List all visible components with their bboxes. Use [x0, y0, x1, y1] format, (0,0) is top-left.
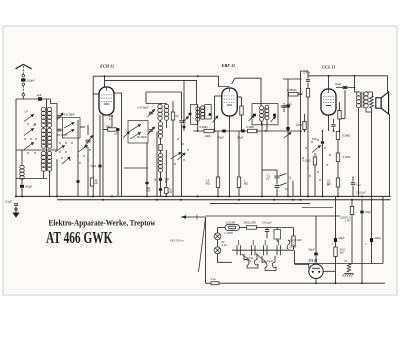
capacitor 100pF antenna	[21, 78, 25, 81]
ground	[12, 213, 19, 218]
wire res to x300	[298, 93, 302, 95]
wire mid horizontal	[16, 149, 57, 151]
wire osc coil top	[146, 104, 161, 105]
IF1 secondary coil	[201, 106, 205, 120]
UY11 electrodes	[312, 268, 321, 273]
switch osc b	[130, 133, 141, 140]
coil L2 secondary	[47, 128, 52, 148]
node antenna coupling	[22, 75, 25, 78]
wire IF2 sec down	[266, 120, 268, 132]
coil osc feedback upper	[158, 122, 162, 139]
wire x218 down	[217, 131, 219, 177]
capacitor IF1 primary	[189, 113, 192, 116]
svg-text:U 250V: U 250V	[225, 231, 234, 235]
wire power top	[206, 215, 341, 217]
wire x315 to bus	[314, 165, 316, 196]
wire x362 segs	[361, 200, 363, 211]
wire y207 segment	[302, 207, 333, 209]
coil L4 wave trap	[20, 165, 24, 179]
wire x304 segs	[304, 114, 306, 122]
wire speaker bottom link	[388, 113, 391, 115]
switch osc a	[130, 125, 141, 132]
mains tick	[196, 215, 198, 220]
switch row 2 right	[78, 146, 88, 153]
resistor 0.1M smoothing	[336, 178, 339, 187]
resistor 0.1M ucl b	[336, 153, 339, 162]
svg-text:Elektro-Apparate-Werke, Trepto: Elektro-Apparate-Werke, Treptow	[49, 218, 156, 227]
wire corner to switch box	[51, 99, 58, 104]
capacitor tone upper	[275, 176, 280, 178]
resistor 150/75 field	[350, 207, 353, 215]
wire antenna to bus	[22, 86, 24, 94]
wire lower horizontal	[16, 178, 47, 180]
wire detector segment	[283, 78, 302, 80]
wire x352 segs	[351, 200, 353, 207]
wire heater bus	[57, 199, 391, 201]
wire x345 drop	[344, 90, 346, 119]
wire rail x57	[56, 104, 58, 151]
svg-text:UCL11: UCL11	[290, 247, 298, 249]
IF2 trimmer arrow 2	[271, 117, 276, 123]
wire x277 top	[276, 170, 278, 176]
trimmer osc 4.5-30pF	[149, 112, 153, 114]
wire trap top	[21, 150, 23, 166]
svg-text:30µF: 30µF	[237, 136, 244, 140]
wire x160 to bus	[160, 172, 162, 196]
svg-text:kΩ: kΩ	[169, 191, 172, 194]
IF2 primary coil	[260, 106, 264, 122]
wire bottom link y263	[295, 263, 384, 265]
svg-text:(1kΩ): (1kΩ)	[205, 134, 212, 138]
wire left rail	[15, 99, 17, 196]
svg-text:µF: µF	[115, 133, 118, 136]
resistor 0.1M	[248, 129, 258, 132]
wire x333 segs	[333, 119, 335, 124]
capacitor mains 1	[265, 230, 269, 232]
wire IF1 down	[197, 121, 199, 131]
svg-text:40µF: 40µF	[375, 236, 382, 240]
svg-text:2 W: 2 W	[345, 218, 350, 222]
svg-text:20kΩ: 20kΩ	[106, 126, 112, 129]
svg-text:0,2MΩ: 0,2MΩ	[342, 134, 350, 138]
svg-text:EBF11: EBF11	[290, 241, 298, 243]
capacitor mains 2 box	[274, 230, 281, 240]
band switch box	[63, 118, 81, 139]
heater bars	[237, 245, 281, 255]
wire rail x147	[146, 143, 148, 196]
svg-text:0,1MΩ: 0,1MΩ	[246, 125, 254, 129]
svg-text:0,1MΩ: 0,1MΩ	[303, 159, 311, 163]
trimmer arrow	[57, 113, 64, 121]
capacitor 50uF cathode blob	[117, 128, 120, 131]
wire UCL11 top	[328, 76, 330, 89]
switch S2b in box	[64, 130, 74, 136]
resistor 1M ucl grid	[303, 122, 306, 130]
switch row 2 left	[55, 146, 65, 153]
wire x315 top	[314, 153, 316, 157]
wire x277 down	[276, 189, 278, 197]
junction dots bottom wire	[315, 282, 363, 284]
svg-text:MΩ: MΩ	[206, 182, 210, 186]
wire x284 segs	[283, 103, 285, 105]
wire top bus right segment	[308, 75, 388, 77]
trimmer 4.5-30pF	[57, 116, 61, 118]
svg-text:40µF: 40µF	[335, 82, 342, 86]
heater block UCL11	[262, 256, 276, 271]
coil L3 secondary	[47, 151, 52, 171]
svg-text:C4: C4	[25, 110, 29, 114]
dial lamp 1	[214, 233, 221, 240]
wire x339 segs	[339, 102, 341, 111]
capacitor IF2 secondary	[273, 114, 276, 117]
wire res20k left	[103, 129, 108, 131]
wire x354 transformer	[354, 76, 356, 92]
wire ECH plate line	[105, 80, 197, 104]
node below cap	[22, 83, 25, 86]
coil L3 primary	[41, 151, 46, 171]
wire coil top feed	[46, 99, 48, 108]
svg-text:4,5-30pF: 4,5-30pF	[138, 106, 149, 110]
wire x335 segs	[335, 196, 337, 238]
svg-text:kΩ: kΩ	[95, 182, 98, 185]
svg-text:M013/III w: M013/III w	[170, 239, 185, 243]
svg-text:50µF: 50µF	[365, 210, 371, 214]
resistor 100 osc	[159, 145, 162, 151]
hum coil	[370, 96, 374, 108]
wire mid link y168	[124, 167, 148, 169]
svg-text:4,5-30pF: 4,5-30pF	[64, 113, 75, 117]
wire x241 segs	[241, 97, 243, 106]
wire third bus	[210, 202, 310, 204]
wire ECH11 grid left	[93, 93, 99, 95]
svg-text:50µF: 50µF	[91, 165, 97, 168]
wire box to rail	[80, 126, 85, 128]
oscillator switch box	[128, 121, 148, 144]
chassis zigzag	[347, 264, 351, 273]
wire EBF11 right pin	[237, 96, 241, 98]
wire fuse left	[218, 227, 226, 229]
resistor mains dropper	[247, 226, 257, 229]
junction dots on bus	[15, 195, 363, 197]
wire ECH11 bottom pin	[102, 115, 104, 196]
svg-text:5W: 5W	[340, 250, 344, 254]
svg-text:Ca: Ca	[288, 176, 292, 180]
svg-text:50µF: 50µF	[218, 136, 225, 140]
wire osc coil top 2	[160, 104, 167, 105]
heater switch diagonal 1	[242, 254, 252, 262]
output transformer secondary	[364, 92, 368, 108]
resistor 45k left rail	[90, 178, 93, 186]
resistor 0.2M	[204, 129, 214, 132]
wire x353 stub	[352, 177, 354, 182]
wire grid tap	[87, 125, 89, 135]
IF transformer 2 can	[252, 104, 278, 125]
wire trap to bus	[21, 188, 23, 196]
svg-text:µF: µF	[267, 176, 270, 180]
wire IF1 feed	[197, 105, 199, 108]
svg-text:100pF: 100pF	[27, 78, 35, 82]
svg-text:UCL11: UCL11	[266, 260, 274, 263]
switch S2a in box	[64, 123, 74, 129]
wire input horizontal	[16, 98, 51, 100]
coil L2 primary	[41, 128, 46, 148]
capacitor 15 pad	[159, 178, 162, 181]
wire rail x78	[77, 120, 79, 196]
resistor 1M	[237, 177, 240, 188]
IF1 core	[199, 107, 201, 120]
oscillator coil B	[164, 104, 168, 120]
wire EBF11 left pin	[215, 95, 222, 97]
trimmer padder	[149, 130, 153, 132]
heater switch diagonal 2	[256, 254, 266, 262]
wire cathode to bus	[111, 115, 113, 127]
wire x335 low	[335, 257, 337, 284]
capacitor 0.1uF psu stub	[351, 183, 355, 185]
IF1 trimmer arrow left	[183, 117, 189, 123]
wire power left rail	[205, 217, 207, 283]
wire osc coil bottoms	[159, 120, 162, 122]
capacitor tone lower	[275, 186, 280, 188]
resistor heater dropper	[292, 236, 295, 246]
svg-text:ECH 11: ECH 11	[99, 64, 114, 69]
wire UCL11 anode right	[336, 87, 355, 89]
svg-text:30µF: 30µF	[280, 104, 287, 108]
IF2 trimmer arrow 1	[249, 116, 255, 122]
wire x239 down	[238, 131, 240, 177]
wire x184 rail	[183, 80, 185, 131]
padder arrow	[148, 127, 155, 135]
svg-text:2×0,1µF: 2×0,1µF	[356, 191, 366, 195]
IF1 former right	[205, 105, 211, 120]
wire rect feed	[315, 216, 317, 252]
capacitor x147 blob	[145, 182, 148, 184]
coil core line	[46, 108, 48, 172]
wire speaker feed	[387, 76, 389, 92]
wire coil bottom	[43, 171, 45, 179]
wire osc grid drop	[145, 92, 147, 104]
wire rail x157	[156, 132, 158, 197]
wire fuse right	[240, 227, 247, 229]
capacitor IF1 secondary	[209, 113, 212, 116]
oscillator coil A	[158, 104, 162, 120]
wire x308 top	[307, 71, 309, 79]
capacitor 40uF b	[370, 238, 373, 242]
capacitor coupling 0.04uF	[306, 80, 310, 82]
wire cap mains segs	[266, 228, 268, 230]
tone hook lower	[280, 183, 287, 186]
wire rect bottom	[315, 279, 317, 284]
wire x338 low	[337, 140, 339, 154]
switch arrow mid	[178, 153, 186, 160]
contact dots row1	[24, 123, 90, 163]
wire IF2 prim down	[261, 121, 263, 125]
wire coil to bus mid	[49, 171, 51, 196]
wire x100 rail	[99, 115, 101, 196]
capacitor 0.1uF ground	[14, 204, 18, 206]
wire lamp link	[217, 240, 219, 247]
mains switch diagonal	[199, 218, 206, 272]
wire right rail	[389, 114, 391, 196]
switch S1a	[24, 115, 34, 122]
wire antenna drop	[22, 96, 24, 99]
trimmer 15-45pF	[57, 129, 61, 131]
capacitor 30uF screen	[241, 130, 244, 133]
capacitor 40uF anode	[343, 87, 348, 89]
wire lamp down	[218, 254, 233, 263]
wire UCL11 bottom	[328, 115, 330, 131]
capacitor 50uF rect	[314, 253, 318, 256]
tube EBF11	[222, 88, 238, 116]
svg-text:UY11: UY11	[248, 257, 254, 260]
wire chassis bus	[15, 195, 391, 197]
wire rail x181	[181, 92, 183, 120]
wire x277 mid	[276, 179, 278, 185]
wire EBF grid drop	[219, 76, 230, 86]
svg-text:1µF: 1µF	[37, 93, 42, 97]
heater top stubs	[239, 240, 279, 245]
wire top bus left segment	[93, 75, 218, 77]
IF2 secondary coil	[265, 105, 269, 120]
resistor 30ohm	[334, 247, 337, 257]
svg-text:100: 100	[146, 190, 151, 193]
switch tone arrow	[312, 146, 321, 153]
contact dots tone switch	[302, 139, 330, 185]
capacitor 430 pad	[159, 188, 162, 191]
wire x338 mid2	[337, 162, 339, 179]
resistor 0.1M ucl a	[338, 111, 341, 120]
resistor 75k	[165, 188, 168, 194]
wire heater to rect	[294, 250, 296, 264]
wire x322 segs	[322, 131, 324, 141]
dial lamp 2	[214, 247, 221, 254]
resistor 0.1M tone	[313, 157, 316, 165]
svg-text:AT 466 GWK: AT 466 GWK	[46, 228, 113, 247]
capacitor 150pF det	[282, 106, 286, 108]
wire rect to tube	[315, 256, 317, 264]
svg-text:0,1A: 0,1A	[211, 278, 216, 281]
wire primary top	[355, 91, 359, 93]
svg-text:0,1µ: 0,1µ	[356, 183, 361, 186]
wire rail x288	[287, 79, 289, 196]
resistor 1.5M	[216, 177, 219, 188]
resistor 0.35M	[289, 93, 299, 96]
scanned page area	[3, 26, 397, 295]
wire to ground	[15, 207, 17, 213]
svg-text:0,04µ: 0,04µ	[304, 71, 311, 75]
wire secondary bottom	[366, 108, 372, 113]
capacitor ucl mid	[331, 125, 335, 127]
wire dropper right	[257, 227, 294, 229]
switch arrow af	[284, 133, 291, 139]
node switch contact	[22, 94, 25, 97]
speaker	[376, 92, 389, 114]
wire coils link	[43, 127, 45, 129]
wire x218 to bus	[217, 188, 219, 197]
tone hook upper	[280, 174, 287, 177]
svg-text:EBF 11: EBF 11	[221, 63, 236, 68]
svg-text:10W: 10W	[297, 239, 303, 242]
coil osc feedback lower	[158, 153, 162, 172]
junction dots heater bus	[102, 199, 353, 201]
svg-text:Zn: Zn	[344, 260, 349, 263]
svg-text:Ω: Ω	[109, 118, 111, 121]
IF1 primary coil	[196, 107, 200, 122]
switch S1b	[24, 129, 34, 136]
output transformer primary	[356, 92, 360, 108]
wire x308 mid	[307, 83, 309, 89]
wire EBF plate diagonal	[232, 78, 262, 106]
capacitor 150pF tone	[321, 141, 324, 144]
wire x383 seg	[382, 196, 384, 263]
wire rail x93	[92, 76, 94, 196]
switch S1d	[62, 157, 70, 164]
wire x293 stub	[292, 181, 294, 196]
wire x345 link	[341, 118, 345, 120]
heater block UY11	[244, 254, 258, 269]
capacitor 50uF trap	[20, 185, 24, 188]
wire osc fb link2	[160, 151, 162, 154]
wire x118 down	[117, 130, 119, 197]
resistor EBF right	[240, 106, 243, 115]
trimmer osc arrow	[148, 110, 155, 118]
svg-text:50µF: 50µF	[26, 185, 33, 189]
tube UCL11	[321, 89, 336, 115]
wire x338 to bus	[337, 187, 339, 196]
transformer core	[361, 92, 363, 109]
wire heater line	[232, 249, 294, 251]
resistor 0.2 osc	[171, 112, 174, 120]
capacitor 40uF a	[334, 238, 337, 242]
svg-text:1MΩ: 1MΩ	[296, 123, 302, 127]
svg-text:150: 150	[312, 137, 317, 141]
wire antenna lead	[22, 66, 24, 74]
wire lamp branch	[217, 228, 219, 234]
wire x239 to bus	[238, 188, 240, 197]
IF2 core	[263, 107, 265, 119]
resistor 2M grid	[306, 89, 309, 98]
svg-text:+: +	[332, 243, 334, 247]
wire heater dropper down	[293, 246, 295, 250]
capacitor blob x78	[77, 180, 80, 183]
contact dots osc right	[174, 138, 188, 164]
capacitor 30uF x288	[286, 105, 289, 108]
fuse	[225, 225, 240, 231]
svg-text:2MΩ: 2MΩ	[298, 92, 304, 96]
tube ECH11	[99, 87, 114, 115]
svg-text:UCL 11: UCL 11	[322, 65, 336, 70]
capacitor 50uF cathode	[222, 130, 225, 133]
switch arrow x175	[171, 153, 182, 160]
tuning capacitor C main	[86, 140, 91, 142]
capacitor 50uF filter	[360, 211, 363, 214]
svg-text:2×0,1µF: 2×0,1µF	[262, 220, 272, 224]
wire rail x214 down	[214, 96, 216, 131]
capacitor IF2 primary	[253, 114, 256, 117]
coil L1 antenna primary	[41, 107, 46, 127]
wire osc fb link	[160, 138, 162, 145]
svg-text:40µF: 40µF	[339, 236, 346, 240]
svg-text:0,1MΩ: 0,1MΩ	[343, 155, 351, 159]
capacitor blob x288 low	[286, 127, 289, 130]
chassis ground	[343, 274, 354, 277]
svg-text:15-45pF: 15-45pF	[137, 135, 148, 139]
heater S-curve right	[287, 240, 290, 250]
IF1 former left	[191, 105, 198, 125]
wire x166 to bus	[165, 150, 167, 188]
fuse 0,1A bottom	[211, 282, 219, 285]
wire osc grid line	[146, 91, 182, 93]
tube UY11 rectifier	[309, 264, 323, 278]
